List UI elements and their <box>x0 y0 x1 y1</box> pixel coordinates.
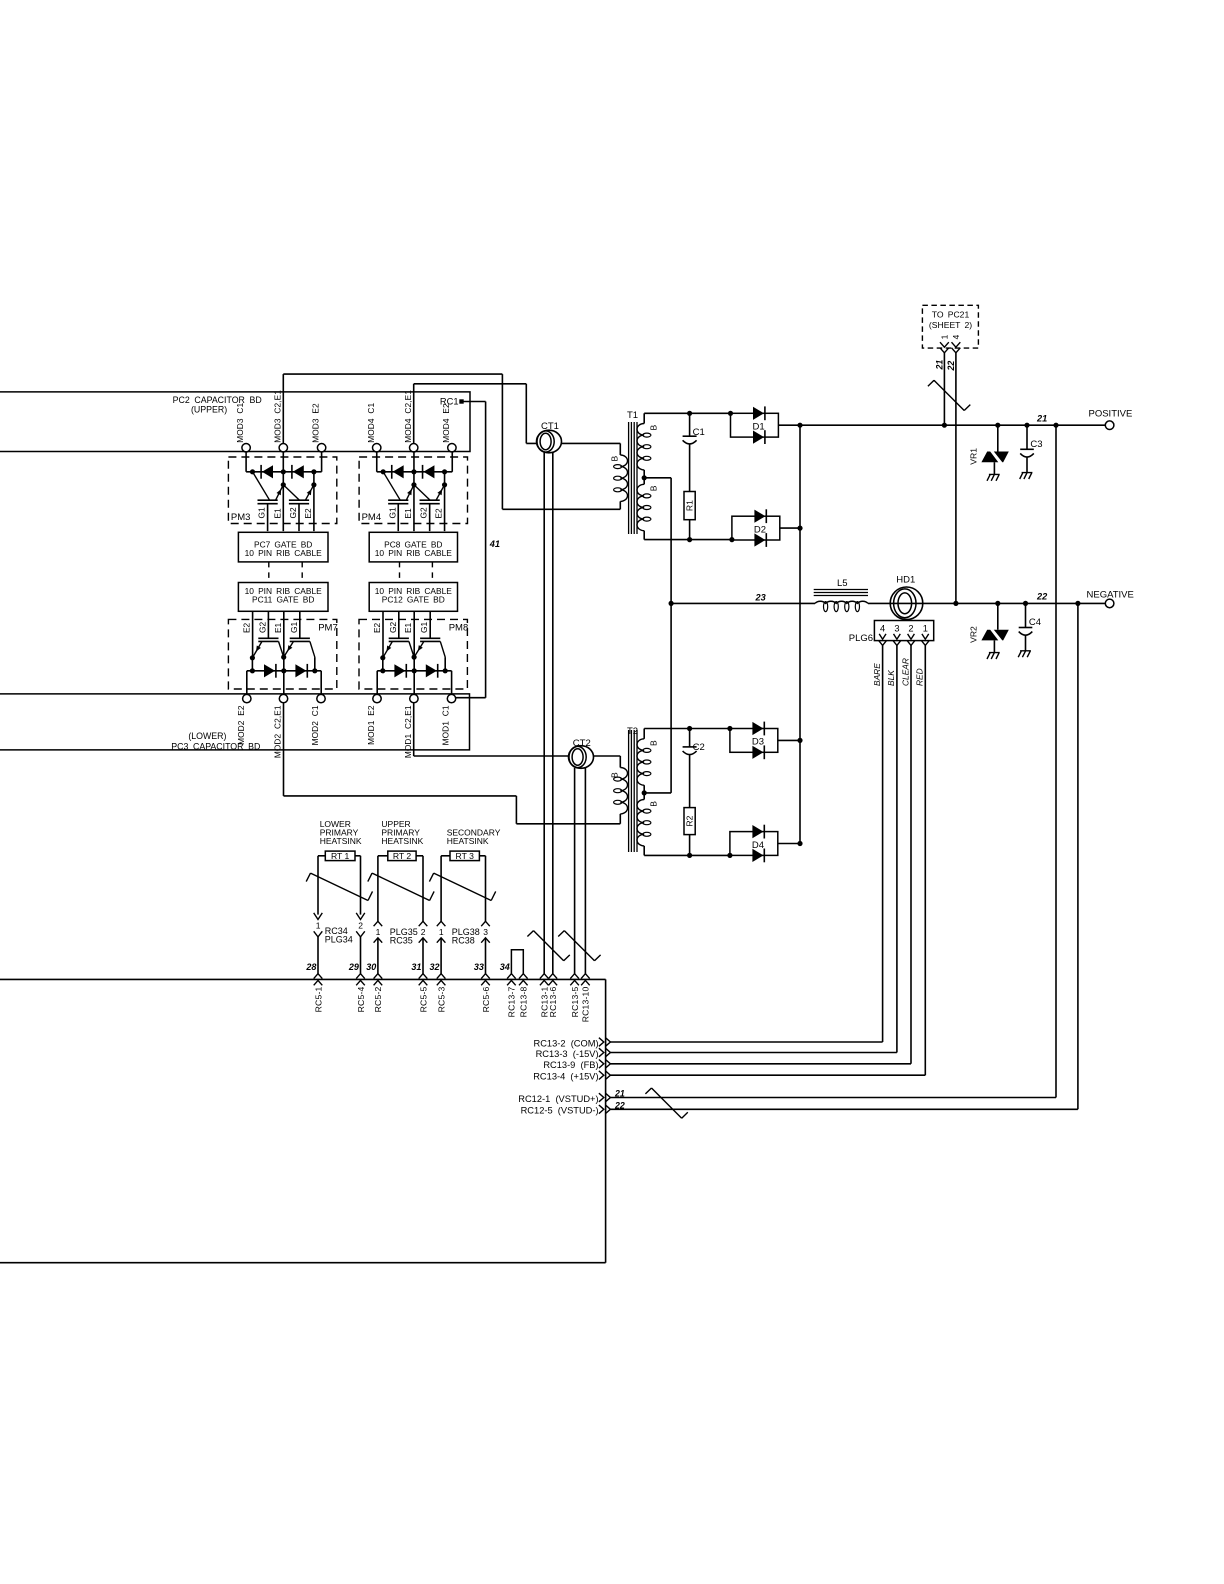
svg-text:D2: D2 <box>754 524 766 535</box>
module PM3 top bus wire <box>245 452 247 472</box>
module PM4 top bus wire <box>376 452 378 472</box>
svg-text:RC13-2 (COM): RC13-2 (COM) <box>534 1038 599 1048</box>
svg-text:RC13-10: RC13-10 <box>581 986 591 1022</box>
bus pin RC13-8 <box>519 974 528 979</box>
wire 22 PC21-4 to negative bus <box>955 353 957 604</box>
svg-text:D1: D1 <box>753 422 765 433</box>
terminal MOD2 E2 on PC3 <box>243 694 251 702</box>
svg-text:(SHEET 2): (SHEET 2) <box>929 320 972 330</box>
svg-text:CLEAR: CLEAR <box>900 658 910 686</box>
freewheel diode in PM4 (right) <box>423 465 434 478</box>
module PM3 dashed outline <box>228 457 336 524</box>
svg-text:RT 1: RT 1 <box>331 851 350 861</box>
wire PLG6-3 BLK <box>896 645 898 1052</box>
terminal MOD3 C1 on PC2 <box>242 444 250 452</box>
CT2 sense wires <box>574 768 576 974</box>
board PC7 gate bd <box>238 532 328 562</box>
svg-text:RT 2: RT 2 <box>393 851 412 861</box>
terminal MOD4 C2,E1 on PC2 <box>410 444 418 452</box>
svg-text:MOD4 E2: MOD4 E2 <box>441 403 451 443</box>
svg-text:B: B <box>610 772 620 778</box>
svg-text:3: 3 <box>483 927 488 937</box>
junction dots in PM7 <box>250 655 255 660</box>
svg-text:E1: E1 <box>272 508 282 519</box>
freewheel diode in PM3 (left) <box>262 465 273 478</box>
svg-text:L5: L5 <box>837 578 848 589</box>
svg-text:VR2: VR2 <box>968 626 978 643</box>
IGBT 1 in PM3 <box>258 499 278 501</box>
board PC2 capacitor bd (upper) outline <box>0 392 470 452</box>
svg-text:G2: G2 <box>419 507 429 518</box>
wire PLG6-1 RED <box>924 645 926 1075</box>
svg-text:PM4: PM4 <box>362 512 382 523</box>
junction dots in PM3 <box>250 469 255 474</box>
bus pin RC13-10 <box>581 974 590 979</box>
gate wires into PM7 <box>252 611 254 658</box>
svg-text:1: 1 <box>316 920 321 930</box>
RT3 plug pins PLG38/RC38 <box>437 921 446 926</box>
svg-text:C3: C3 <box>1030 439 1042 450</box>
wire harness bus to RC5/RC13 <box>0 978 606 980</box>
svg-text:RC5-3: RC5-3 <box>436 986 446 1012</box>
svg-text:MOD3 C1: MOD3 C1 <box>235 403 245 443</box>
svg-text:RC13-4 (+15V): RC13-4 (+15V) <box>533 1072 598 1082</box>
transformer T1 core <box>628 422 630 534</box>
svg-text:PLG34: PLG34 <box>325 935 353 945</box>
svg-text:21: 21 <box>614 1088 625 1098</box>
svg-text:RC5-1: RC5-1 <box>313 986 323 1012</box>
ground below C3 <box>1020 473 1033 479</box>
thermostat RT2 <box>388 851 416 861</box>
current transformer CT2 <box>569 746 594 769</box>
bus pin RC5-3 <box>437 974 446 979</box>
svg-text:G1: G1 <box>387 507 397 518</box>
freewheel diode in PM3 (right) <box>293 465 304 478</box>
IGBT 2 in PM7 <box>290 637 310 639</box>
svg-text:E2: E2 <box>434 508 444 519</box>
svg-text:21: 21 <box>935 360 945 371</box>
terminal POSITIVE <box>1105 421 1114 430</box>
wire E2 node in PM3 <box>313 472 315 485</box>
svg-text:G2: G2 <box>257 622 267 633</box>
svg-text:PC12 GATE BD: PC12 GATE BD <box>382 595 445 605</box>
snubber capacitor C1 <box>689 413 691 436</box>
ground below VR2 <box>987 653 1000 659</box>
svg-text:BARE: BARE <box>872 663 882 686</box>
svg-text:MOD2 E2: MOD2 E2 <box>236 705 246 745</box>
freewheel diode in PM4 (left) <box>393 465 404 478</box>
bottom bus wire in PM8 <box>382 658 384 671</box>
CT1 sense wires <box>543 452 545 974</box>
svg-text:RC5-6: RC5-6 <box>481 986 491 1012</box>
svg-text:28: 28 <box>305 962 316 972</box>
svg-text:HEATSINK: HEATSINK <box>381 836 423 846</box>
svg-text:4: 4 <box>951 334 961 339</box>
bus pin RC13-6 <box>549 974 558 979</box>
RT2 plug pins PLG35/RC35 <box>374 921 383 926</box>
wire 41 RC1 to MOD1 C1 <box>462 401 486 403</box>
svg-text:29: 29 <box>348 962 359 972</box>
crossing mark on CT2 wires <box>558 931 600 961</box>
svg-text:RC13-3 (-15V): RC13-3 (-15V) <box>536 1049 599 1059</box>
transformer T2 secondary lower winding <box>643 793 645 800</box>
transformer T1 primary winding <box>619 443 621 455</box>
wire T2 secondary bottom rail <box>644 854 730 856</box>
wire MOD4 C2,E1 to T1 primary (upper lead) through CT1 <box>413 384 415 444</box>
svg-text:MOD4 C1: MOD4 C1 <box>366 403 376 443</box>
svg-text:21: 21 <box>1036 413 1047 423</box>
svg-text:10 PIN RIB CABLE: 10 PIN RIB CABLE <box>375 548 452 558</box>
svg-text:34: 34 <box>500 962 510 972</box>
svg-text:1: 1 <box>923 624 928 634</box>
bottom bus wire in PM7 <box>251 658 253 671</box>
off-sheet connector TO PC21 (SHEET 2) <box>922 305 978 348</box>
ribbon cable PC8-PC12 <box>399 562 401 583</box>
svg-text:C1: C1 <box>693 427 705 438</box>
inductor L5 <box>814 589 868 591</box>
svg-text:RC13-9 (FB): RC13-9 (FB) <box>543 1060 598 1070</box>
rectifier diode D1 (dual) <box>731 413 779 437</box>
junction dots in PM4 <box>381 469 386 474</box>
svg-text:4: 4 <box>880 624 885 634</box>
crossing mark on VSTUD wires <box>645 1088 687 1118</box>
svg-text:RT 3: RT 3 <box>456 851 475 861</box>
terminal MOD2 C2,E1 on PC3 <box>279 694 287 702</box>
varistor VR2 <box>997 603 999 629</box>
svg-text:C2: C2 <box>693 742 705 753</box>
svg-text:HD1: HD1 <box>896 575 915 586</box>
svg-text:MOD4 C2,E1: MOD4 C2,E1 <box>403 390 413 443</box>
crossing mark on CT1 wires <box>527 931 569 961</box>
thermostat RT1 <box>325 851 355 861</box>
svg-text:PM7: PM7 <box>318 622 338 633</box>
terminal NEGATIVE <box>1105 599 1114 608</box>
svg-text:22: 22 <box>614 1101 625 1111</box>
svg-text:1: 1 <box>439 927 444 937</box>
wire PLG6-2 CLEAR <box>910 645 912 1063</box>
svg-text:MOD1 C2,E1: MOD1 C2,E1 <box>403 705 413 758</box>
connector PLG6 <box>874 621 933 641</box>
bus pin RC13-5 <box>570 974 579 979</box>
svg-text:30: 30 <box>366 962 376 972</box>
terminal MOD4 C1 on PC2 <box>373 444 381 452</box>
IGBT 1 in PM4 <box>388 499 408 501</box>
svg-text:22: 22 <box>946 361 956 372</box>
svg-text:MOD3 E2: MOD3 E2 <box>311 403 321 443</box>
svg-text:PC11 GATE BD: PC11 GATE BD <box>252 595 314 605</box>
svg-text:BLK: BLK <box>886 670 896 686</box>
svg-text:2: 2 <box>908 624 913 634</box>
svg-text:2: 2 <box>358 920 363 930</box>
svg-text:MOD2 C2,E1: MOD2 C2,E1 <box>273 705 283 758</box>
svg-text:RC12-5 (VSTUD-): RC12-5 (VSTUD-) <box>521 1106 599 1116</box>
svg-text:MOD1 C1: MOD1 C1 <box>441 705 451 745</box>
ground below VR1 <box>987 474 1000 480</box>
T2 center tap to node 23 <box>642 790 647 795</box>
svg-text:B: B <box>610 456 620 462</box>
svg-text:R1: R1 <box>685 500 695 511</box>
svg-text:G1: G1 <box>257 507 267 518</box>
svg-text:E2: E2 <box>242 622 252 633</box>
svg-text:G1: G1 <box>289 622 299 633</box>
svg-text:1: 1 <box>939 334 949 339</box>
board PC11 gate bd <box>238 583 328 612</box>
terminal MOD1 C2,E1 on PC3 <box>410 694 418 702</box>
svg-text:E1: E1 <box>403 622 413 633</box>
svg-text:C4: C4 <box>1029 617 1041 628</box>
board PC3 capacitor bd (lower) outline <box>0 694 470 750</box>
svg-text:RC13-7: RC13-7 <box>507 986 517 1017</box>
transformer T2 core <box>628 730 630 852</box>
transformer T2 secondary upper winding <box>643 729 645 739</box>
svg-text:RC13-6: RC13-6 <box>548 986 558 1017</box>
wire 21 PC21-1 to positive bus <box>943 353 945 425</box>
svg-text:MOD1 E2: MOD1 E2 <box>366 705 376 745</box>
svg-text:TO PC21: TO PC21 <box>932 310 970 320</box>
wire T1 secondary bottom rail <box>644 539 732 541</box>
svg-text:2: 2 <box>421 927 426 937</box>
svg-text:B: B <box>649 485 659 491</box>
svg-text:T1: T1 <box>627 410 638 421</box>
svg-text:CT2: CT2 <box>573 738 591 749</box>
svg-text:RC38: RC38 <box>452 935 475 945</box>
freewheel diode in PM8 (left) <box>394 664 405 677</box>
wire MOD1 C2,E1 to T2 primary (upper lead) through CT2 <box>413 703 415 756</box>
crossing mark on PC21 wires <box>928 380 970 410</box>
snubber resistor R1 <box>684 492 695 520</box>
svg-text:B: B <box>649 740 659 746</box>
wire E1 node in PM3 <box>282 452 284 531</box>
svg-text:G2: G2 <box>388 622 398 633</box>
transformer T1 secondary lower winding <box>643 478 645 485</box>
svg-text:32: 32 <box>429 962 439 972</box>
svg-text:HEATSINK: HEATSINK <box>320 836 362 846</box>
svg-text:(LOWER): (LOWER) <box>188 731 226 741</box>
svg-text:RC35: RC35 <box>390 935 413 945</box>
svg-text:RC5-5: RC5-5 <box>418 986 428 1012</box>
svg-text:RC5-4: RC5-4 <box>356 986 366 1012</box>
IGBT 1 in PM7 <box>258 637 278 639</box>
board PC8 gate bd <box>369 532 457 562</box>
wire positive output rail <box>800 424 1105 426</box>
svg-text:22: 22 <box>1036 592 1048 602</box>
wire E2 node in PM4 <box>444 472 446 485</box>
svg-text:PM3: PM3 <box>231 512 251 523</box>
svg-text:E2: E2 <box>372 622 382 633</box>
transformer T2 primary winding <box>619 756 621 768</box>
module PM7 dashed outline <box>228 619 336 689</box>
bus pin RC5-1 <box>314 974 323 979</box>
freewheel diode in PM8 (right) <box>426 664 437 677</box>
wire harness bus drop <box>605 979 607 1262</box>
svg-text:E1: E1 <box>403 508 413 519</box>
bus pin RC13-1 <box>540 974 549 979</box>
svg-text:RC12-1 (VSTUD+): RC12-1 (VSTUD+) <box>518 1094 598 1104</box>
svg-text:(UPPER): (UPPER) <box>191 404 227 414</box>
T1 center tap to node 23 <box>642 475 647 480</box>
svg-text:MOD3 C2,E1: MOD3 C2,E1 <box>272 390 282 443</box>
wire node 23 to L5 <box>671 602 815 604</box>
svg-text:E1: E1 <box>273 622 283 633</box>
svg-text:B: B <box>649 425 659 431</box>
svg-text:41: 41 <box>489 539 500 549</box>
RT1 plug pins PLG34/RC34 <box>314 913 323 920</box>
board PC12 gate bd <box>369 583 457 612</box>
svg-text:D4: D4 <box>752 840 764 851</box>
svg-text:PC3 CAPACITOR BD: PC3 CAPACITOR BD <box>171 742 260 752</box>
svg-text:T2: T2 <box>627 726 638 737</box>
svg-text:RC5-2: RC5-2 <box>373 986 383 1012</box>
current transformer CT1 <box>537 430 562 453</box>
hall sensor HD1 <box>890 587 923 620</box>
IGBT 1 in PM8 <box>389 637 409 639</box>
jumper RC13-7 to RC13-8 <box>511 950 523 974</box>
terminal MOD3 C2,E1 on PC2 <box>279 444 287 452</box>
gate wires into PM8 <box>382 611 384 658</box>
rectifier diode D3 (dual) <box>730 729 778 753</box>
wire MOD3 C2,E1 to T1 primary (lower lead) <box>282 374 284 443</box>
IGBT 2 in PM3 <box>289 499 309 501</box>
thermostat RT3 <box>450 851 479 861</box>
ground below C4 <box>1018 651 1031 657</box>
wire PLG6-4 BARE <box>882 645 884 1042</box>
ribbon cable PC7-PC11 <box>268 562 270 583</box>
wire E1 node in PM4 <box>413 452 415 531</box>
svg-text:RC13-8: RC13-8 <box>519 986 529 1017</box>
wire harness bottom return <box>0 1262 606 1264</box>
svg-text:PLG6: PLG6 <box>849 633 873 644</box>
svg-text:1: 1 <box>376 927 381 937</box>
wire MOD2 C2,E1 to T2 primary (lower lead) <box>283 703 285 796</box>
svg-text:3: 3 <box>894 624 899 634</box>
terminal MOD1 C1 on PC3 <box>447 694 455 702</box>
filter capacitor C4 <box>1025 603 1027 627</box>
wire T2 secondary top rail <box>644 728 730 730</box>
svg-text:RED: RED <box>915 668 925 686</box>
module PM4 dashed outline <box>359 457 467 524</box>
svg-text:33: 33 <box>474 962 484 972</box>
svg-text:31: 31 <box>411 962 421 972</box>
wire rectifier output bus <box>799 425 801 843</box>
rectifier diode D2 (dual) <box>732 516 780 540</box>
bus pin RC5-5 <box>419 974 428 979</box>
svg-text:23: 23 <box>755 592 766 602</box>
svg-text:NEGATIVE: NEGATIVE <box>1087 590 1134 601</box>
snubber resistor R2 <box>684 808 695 835</box>
freewheel diode in PM7 (left) <box>264 664 275 677</box>
bus pin RC13-7 <box>507 974 516 979</box>
IGBT 2 in PM4 <box>420 499 440 501</box>
svg-text:HEATSINK: HEATSINK <box>447 836 489 846</box>
svg-text:POSITIVE: POSITIVE <box>1089 409 1133 420</box>
IGBT 2 in PM8 <box>420 637 440 639</box>
bus pin RC5-2 <box>374 974 383 979</box>
wire T1 secondary top rail <box>644 412 730 414</box>
svg-text:CT1: CT1 <box>541 421 559 432</box>
rectifier diode D4 (dual) <box>730 832 778 856</box>
svg-text:PM8: PM8 <box>449 622 469 633</box>
svg-text:G1: G1 <box>419 622 429 633</box>
svg-text:MOD2 C1: MOD2 C1 <box>310 705 320 745</box>
svg-text:VR1: VR1 <box>968 448 978 465</box>
wire L5 to negative terminal <box>868 602 1105 604</box>
svg-text:10 PIN RIB CABLE: 10 PIN RIB CABLE <box>245 548 322 558</box>
svg-text:G2: G2 <box>288 507 298 518</box>
bus pin RC5-4 <box>356 974 365 979</box>
bus pin RC5-6 <box>481 974 490 979</box>
snubber capacitor C2 <box>689 729 691 747</box>
terminal MOD3 E2 on PC2 <box>317 444 325 452</box>
varistor VR1 <box>997 425 999 451</box>
svg-text:E2: E2 <box>303 508 313 519</box>
module PM8 dashed outline <box>359 619 467 689</box>
filter capacitor C3 <box>1026 425 1028 449</box>
freewheel diode in PM7 (right) <box>295 664 306 677</box>
svg-text:B: B <box>649 801 659 807</box>
terminal MOD2 C1 on PC3 <box>317 694 325 702</box>
svg-text:D3: D3 <box>752 737 764 748</box>
junction dots in PM8 <box>380 655 385 660</box>
svg-text:RC13-5: RC13-5 <box>570 986 580 1017</box>
terminal MOD4 E2 on PC2 <box>448 444 456 452</box>
terminal MOD1 E2 on PC3 <box>373 694 381 702</box>
transformer T1 secondary upper winding <box>643 413 645 423</box>
svg-text:R2: R2 <box>685 815 695 826</box>
